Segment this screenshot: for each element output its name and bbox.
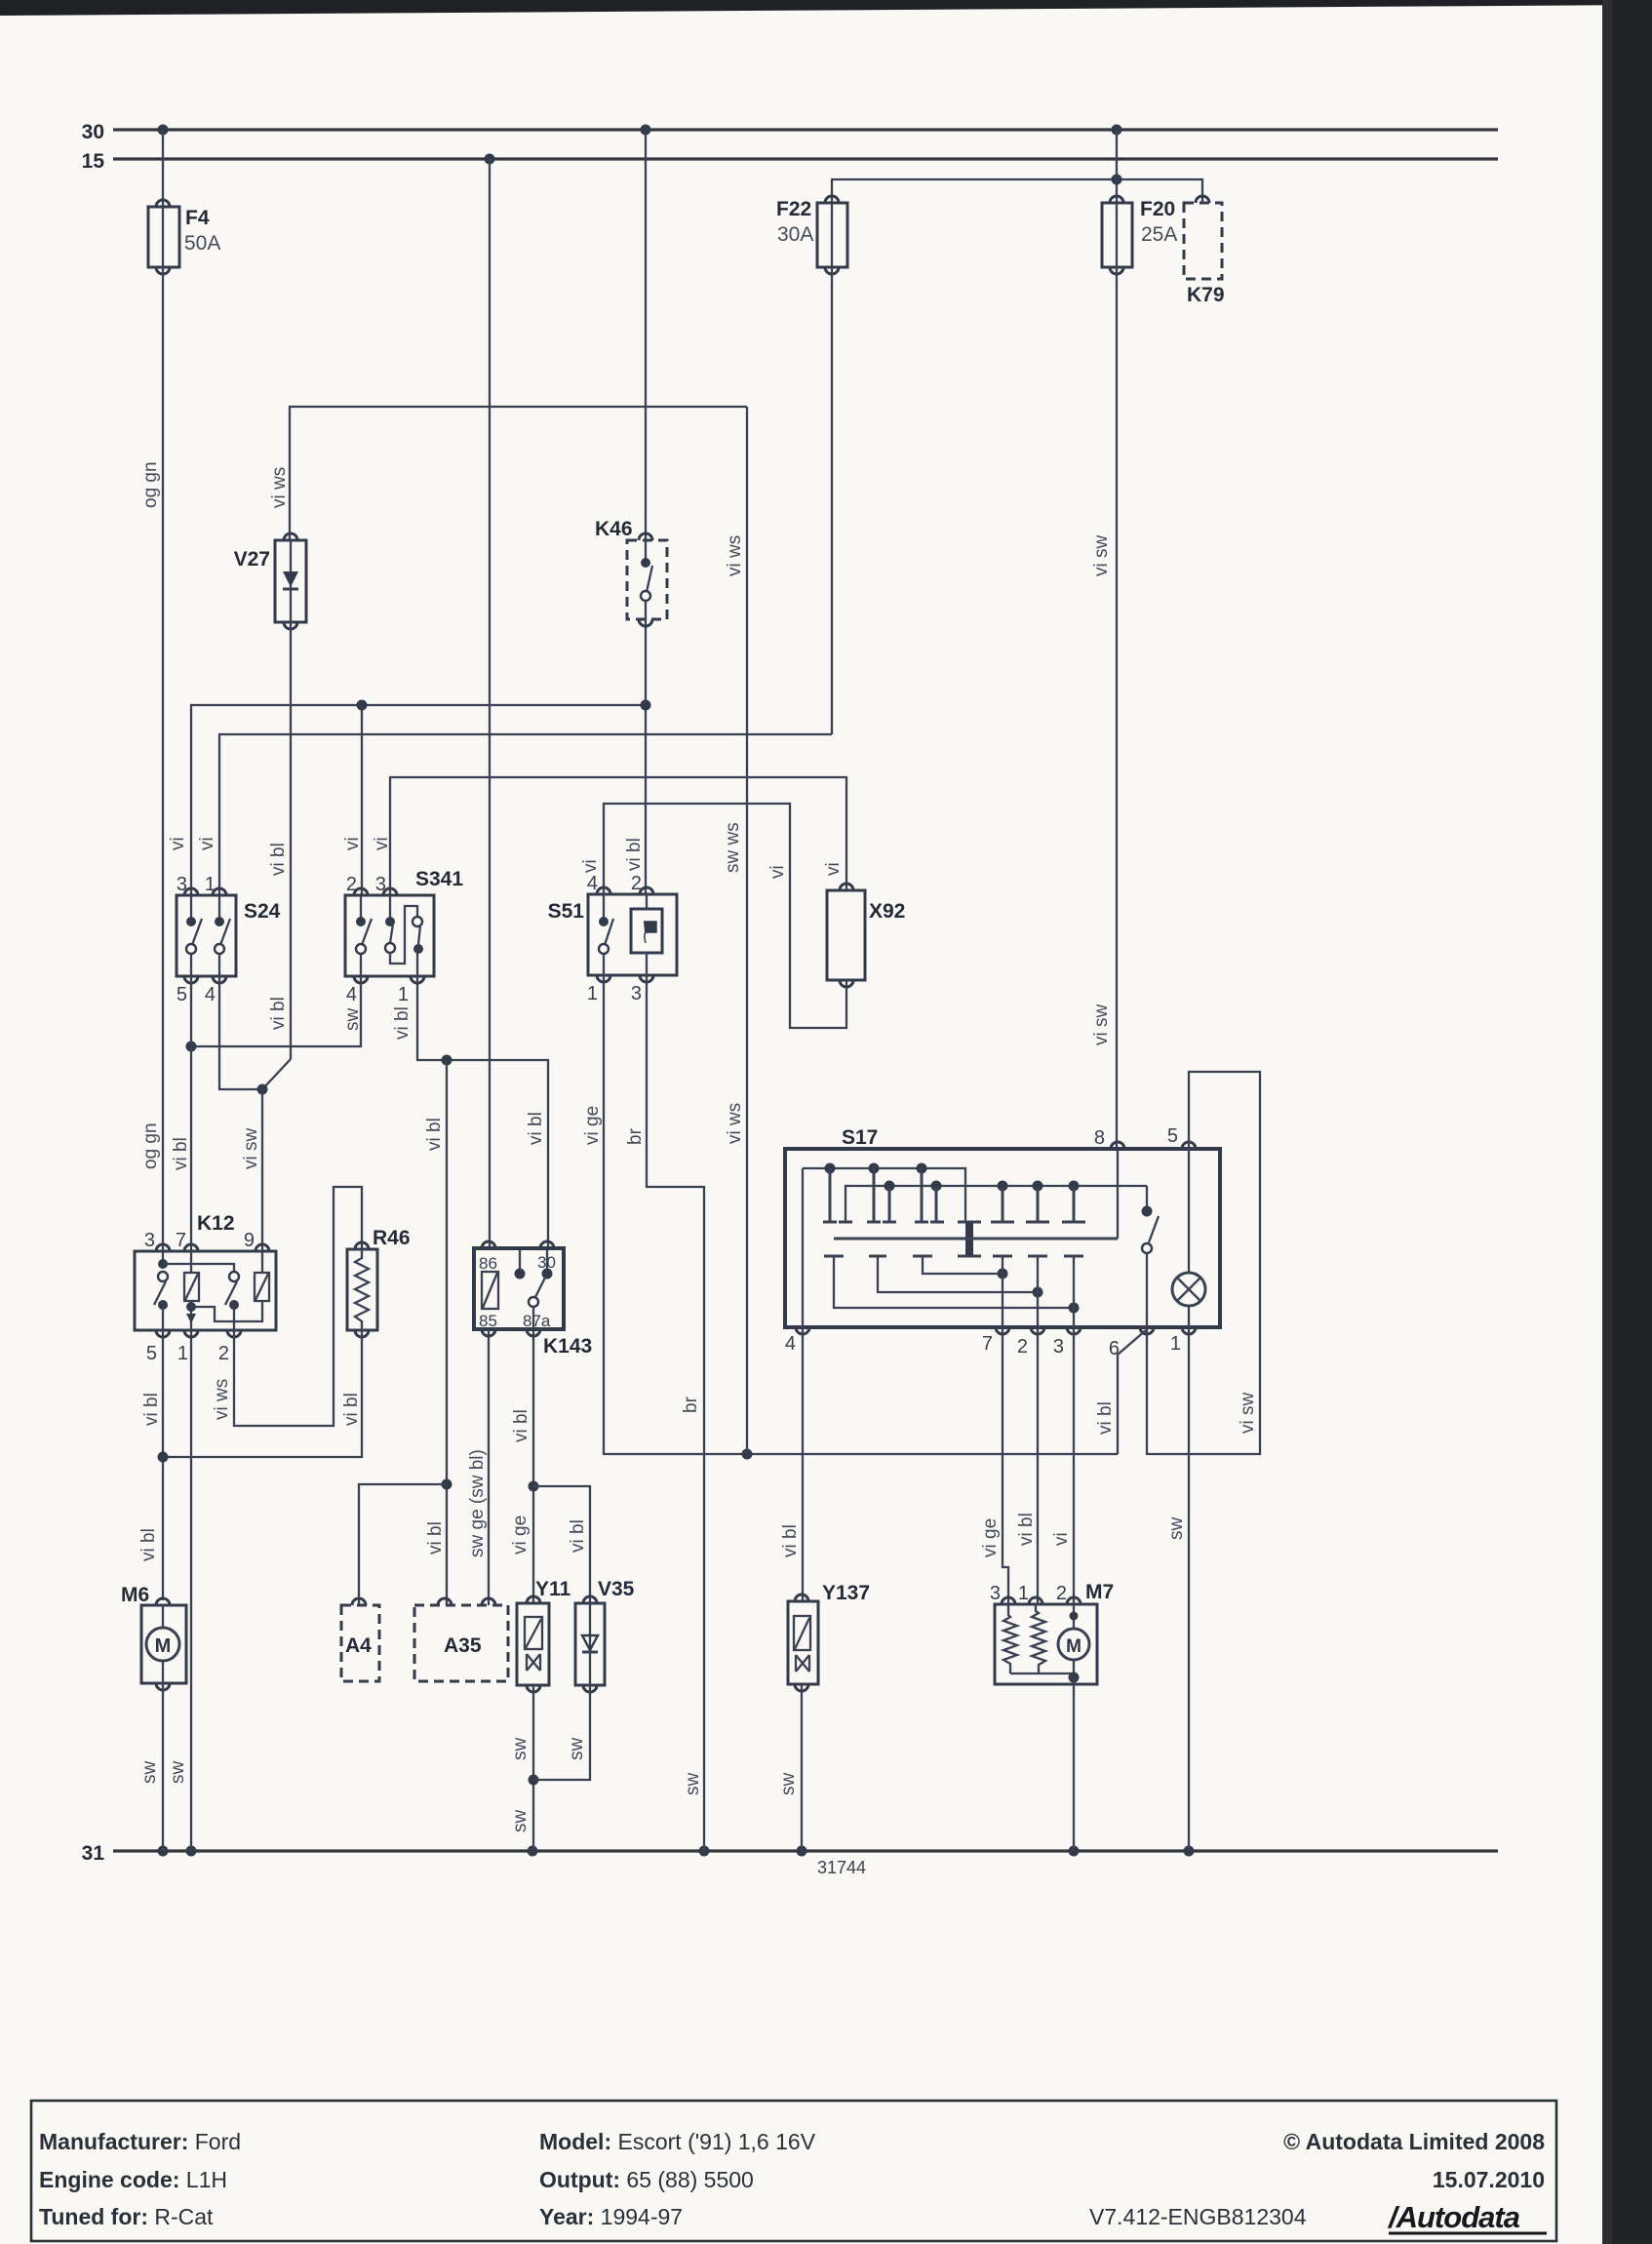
wire vi ge S17 pin7 to M7 pin3 [1003,1327,1008,1604]
svg-text:S24: S24 [244,900,281,923]
bus 15 line [113,157,1498,160]
wire S24 pin5 / S341 pin4 junction [191,976,361,1046]
wire bus30 to F4 [162,130,164,207]
svg-text:3: 3 [990,1583,1001,1604]
wire row y723 to S24 pin 3 [191,705,646,895]
svg-text:vi bl: vi bl [568,1519,588,1553]
S17 internal switch [1142,1186,1160,1327]
node bus 31 / Y137 [797,1846,807,1857]
svg-text:sw: sw [1166,1517,1187,1541]
svg-text:4: 4 [205,984,216,1005]
svg-text:vi bl: vi bl [138,1528,159,1561]
node on bus 15 [485,154,495,165]
S17 rail2 node c [998,1181,1008,1192]
node bus 31 / M6 [158,1846,169,1857]
svg-text:25A: 25A [1141,223,1177,246]
S17 pin8 internal feed [1117,1149,1119,1239]
svg-text:vi sw: vi sw [1091,535,1112,577]
svg-text:3: 3 [1053,1336,1064,1358]
svg-text:vi ge: vi ge [980,1518,1001,1557]
svg-text:3: 3 [144,1230,155,1251]
svg-text:vi: vi [342,837,363,850]
wire sw Y137 to bus 31 [801,1684,803,1851]
wire S51 pin 4 to X92 bottom [604,804,846,1028]
svg-text:vi bl: vi bl [424,1118,445,1151]
info table border [31,2101,1556,2241]
resistor R46 [347,1242,377,1337]
wire vi sw to K12 pin 9 [261,1089,263,1251]
svg-text:sw: sw [168,1761,188,1785]
svg-text:M: M [155,1635,172,1657]
svg-text:50A: 50A [184,232,220,255]
fuse F20 [1102,196,1132,274]
S17 lower link c to pin7 [923,1256,1003,1274]
svg-text:sw ws: sw ws [723,822,743,873]
fuse F22 [817,196,847,274]
svg-text:vi bl: vi bl [624,838,645,871]
svg-text:Engine code: L1H: Engine code: L1H [39,2167,227,2192]
svg-text:9: 9 [244,1230,255,1251]
svg-text:vi bl: vi bl [392,1006,413,1040]
bus 30 line [113,128,1498,131]
svg-text:7: 7 [982,1333,993,1355]
node branch to A35 [442,1055,452,1066]
solenoid valve Y137 [788,1594,818,1691]
wire bus30 down to F22/F20/K79 header [1116,130,1118,203]
svg-text:sw: sw [510,1738,531,1761]
svg-text:M6: M6 [121,1584,149,1606]
svg-text:4: 4 [346,984,357,1005]
S17 rail1 node b [869,1163,880,1174]
svg-text:og gn: og gn [140,461,161,508]
svg-text:87a: 87a [523,1312,551,1330]
svg-text:30: 30 [82,121,104,143]
svg-text:br: br [681,1396,701,1413]
svg-text:30A: 30A [777,223,813,246]
relay K12 [135,1244,276,1337]
wire S17 pin6 diagonal [1118,1330,1146,1454]
S17 pin2 drop [1037,1256,1039,1327]
wire vi bl down to A35 pin left [446,1060,448,1605]
wire F22 down to corner [831,267,833,734]
node A4 junction [442,1479,452,1490]
S17 rail1 node a [825,1163,836,1174]
svg-text:sw: sw [778,1773,799,1796]
svg-text:2: 2 [218,1343,229,1364]
svg-text:X92: X92 [869,900,905,923]
svg-text:vi ge: vi ge [510,1516,531,1555]
S17 pin7 drop [1002,1256,1003,1327]
svg-text:A35: A35 [444,1634,482,1657]
S17 internal riser pin 4 [802,1168,804,1327]
node Y11/V35 junction [529,1481,539,1492]
svg-text:vi sw: vi sw [1091,1004,1112,1046]
svg-text:Tuned for: R-Cat: Tuned for: R-Cat [39,2204,214,2229]
svg-text:F4: F4 [185,207,210,229]
relay K79 (dashed) [1184,196,1222,279]
wire vi ge S51 pin1 long run y1491 [604,975,1118,1454]
svg-text:vi: vi [823,862,844,876]
node bus 31 / Y11 [528,1846,538,1857]
relay contact K46 (dashed) [627,533,667,626]
svg-text:F22: F22 [776,198,811,220]
svg-text:4: 4 [587,873,598,894]
svg-text:1: 1 [1018,1583,1029,1604]
svg-text:3: 3 [375,874,386,895]
S17 rail2 node d [1033,1181,1043,1192]
wire sw S17 pin1 to bus 31 [1188,1327,1190,1851]
svg-text:M7: M7 [1085,1581,1114,1603]
wire vi bl S24 pin5 to K12 pin 7 [190,976,192,1251]
diode V27 [275,533,306,629]
svg-text:vi: vi [767,865,788,879]
relay K143 [474,1241,564,1336]
wire sw ge K143 pin85 to A35 [488,1329,490,1605]
scanner black right edge band [1602,0,1652,2244]
svg-text:© Autodata Limited 2008: © Autodata Limited 2008 [1283,2129,1545,2154]
node bus 31 / M7 [1069,1846,1080,1857]
S17 upper contact shoes [823,1221,1085,1224]
node bus 31 / K12 pin1 [186,1846,197,1857]
wire sw Y11 to bus 31 [532,1685,534,1851]
node S24 pin5 wire [186,1042,197,1052]
svg-text:/Autodata: /Autodata [1387,2200,1520,2234]
node bus 31 / S17 pin1 wire [1184,1846,1195,1857]
svg-text:M: M [1066,1636,1082,1657]
svg-text:vi ws: vi ws [725,1103,745,1144]
svg-text:vi bl: vi bl [1016,1513,1037,1546]
svg-text:vi ge: vi ge [582,1106,603,1145]
connector X92 [827,884,865,987]
node Y11/V35 sw junction [529,1775,539,1786]
svg-text:15: 15 [82,150,105,173]
svg-text:31: 31 [82,1842,105,1865]
svg-text:Year: 1994-97: Year: 1994-97 [539,2204,683,2229]
svg-text:1: 1 [205,874,216,895]
svg-text:vi sw: vi sw [1238,1393,1258,1435]
svg-text:5: 5 [146,1343,157,1364]
svg-text:vi ws: vi ws [725,535,745,576]
wire bus30 down to K46 [645,130,647,540]
node sw ws riser on y1491 [742,1449,753,1460]
wire sw M6 to bus 31 [162,1683,164,1851]
svg-text:5: 5 [1167,1125,1178,1147]
node y723 at K46 wire [641,700,651,711]
svg-text:K79: K79 [1187,284,1225,306]
svg-text:2: 2 [631,873,642,894]
svg-text:vi: vi [1051,1532,1072,1546]
wire S17 pin5 loop to pin6 [1147,1072,1260,1454]
S17 internal rail 2 [846,1186,1147,1222]
svg-text:Output: 65 (88) 5500: Output: 65 (88) 5500 [539,2167,754,2192]
svg-text:2: 2 [346,874,357,895]
Autodata logo [1387,2200,1547,2234]
svg-text:30: 30 [537,1253,556,1272]
S17 node pin7 link [998,1269,1008,1279]
svg-text:V35: V35 [598,1578,635,1600]
svg-text:F20: F20 [1140,198,1175,220]
svg-text:vi: vi [580,859,601,873]
svg-text:Y11: Y11 [535,1578,571,1600]
svg-text:vi bl: vi bl [171,1137,191,1170]
motor M6 [141,1598,186,1690]
svg-text:S341: S341 [415,868,463,890]
wire vi bl K143 pin87a to Y11 [532,1329,534,1603]
svg-text:8: 8 [1094,1127,1105,1149]
svg-text:3: 3 [631,983,642,1004]
scanner black top edge band [0,0,1652,16]
svg-text:vi bl: vi bl [341,1393,362,1426]
svg-text:vi bl: vi bl [425,1521,446,1555]
svg-text:1: 1 [177,1343,188,1364]
S17 pin3 drop [1073,1256,1075,1327]
S17 slider bar [834,1238,1118,1240]
node on bus 30 at F4 [158,125,169,136]
svg-text:Manufacturer: Ford: Manufacturer: Ford [39,2129,241,2154]
svg-text:vi bl: vi bl [526,1112,546,1145]
wire bus15 to K143 pin 86 [489,159,491,1248]
svg-text:K46: K46 [595,518,633,540]
node on bus 30 at F20 [1112,125,1122,136]
heater control switch S17 [785,1142,1220,1334]
svg-text:vi bl: vi bl [1095,1401,1116,1435]
svg-text:7: 7 [176,1230,186,1251]
switch S24 [177,888,236,983]
wire M7 to bus 31 [1073,1679,1075,1851]
node bus 31 / br wire [699,1846,710,1857]
S17 contact stems rail1 [830,1168,922,1222]
svg-text:1: 1 [1170,1333,1181,1355]
wire K46 to S51 pin 2 [645,619,647,894]
svg-text:1: 1 [398,984,409,1005]
wire A4 branch [359,1484,447,1605]
wire br S51 pin3 to bus 31 [647,975,704,1851]
wire V27 diagonal to junction [262,1059,291,1089]
svg-text:V27: V27 [234,548,270,571]
solenoid valve Y11 [517,1596,549,1692]
wire S341 pin1 to K143 pin 30 [417,976,548,1248]
svg-text:vi bl: vi bl [268,843,289,876]
svg-text:vi: vi [372,837,392,850]
svg-text:og gn: og gn [140,1122,161,1169]
S17 lamp [1172,1149,1205,1327]
wire row y797 to S341 pin 3 / X92 [390,777,846,895]
svg-text:86: 86 [479,1254,497,1273]
svg-text:sw: sw [567,1738,587,1761]
svg-text:Model: Escort ('91) 1,6 16V: Model: Escort ('91) 1,6 16V [539,2129,816,2154]
svg-text:A4: A4 [345,1634,372,1657]
svg-text:vi: vi [197,837,217,850]
svg-text:S51: S51 [548,900,585,923]
svg-text:31744: 31744 [817,1858,866,1877]
node y723 at S341 pin2 wire [357,700,368,711]
node M6 feed junction [158,1452,169,1463]
wire vi ws K12 pin2 to R46 top [234,1187,362,1426]
node vi sw junction [257,1084,268,1095]
wire S24 pin4 jog [219,976,262,1089]
wire vi sw F20 down to S17 pin 8 [1116,267,1118,1149]
wire sw K12 pin1 to bus 31 [190,1330,192,1851]
wire branch to V35 [533,1486,590,1603]
svg-text:Y137: Y137 [822,1582,870,1604]
wire sw V35 to junction [533,1685,590,1780]
S17 lower link a to pin3 [834,1256,1074,1308]
svg-text:vi bl: vi bl [511,1409,531,1442]
wire header F22 to K79 [832,179,1202,203]
diode V35 [575,1596,605,1692]
control unit A35 (dashed) [414,1598,508,1681]
svg-text:vi sw: vi sw [241,1128,261,1170]
S17 lower link b to pin2 [878,1256,1038,1292]
svg-text:vi: vi [168,837,188,850]
wire vi ws header above V27 [290,407,747,540]
node on bus 30 at K46 [641,125,651,136]
S17 rail2 node b [931,1181,942,1192]
wire vi bl S17 pin4 to Y137 [802,1327,804,1601]
svg-text:vi bl: vi bl [780,1524,801,1557]
svg-text:vi bl: vi bl [141,1393,162,1426]
svg-text:sw: sw [342,1008,363,1032]
svg-text:15.07.2010: 15.07.2010 [1433,2167,1545,2192]
svg-text:R46: R46 [373,1227,411,1249]
wire vi bl S17 pin2 to M7 pin1 [1037,1327,1039,1604]
switch S341 [345,888,434,983]
svg-text:sw: sw [683,1773,703,1796]
ignition switch S51 [588,887,677,982]
wire row y753 F22 to S24 pin 1 [219,734,832,895]
svg-text:sw ge (sw bl): sw ge (sw bl) [467,1449,488,1557]
svg-text:2: 2 [1017,1336,1028,1358]
node header at F20 [1112,175,1122,185]
svg-text:S17: S17 [842,1126,878,1149]
wire og gn F4 to K12 pin 3 [162,267,164,1251]
svg-text:K143: K143 [543,1335,592,1358]
wire vi bl K12 pin5 to M6 [162,1330,164,1600]
bus 31 line [113,1849,1498,1852]
S17 lower contact shoes [824,1255,1083,1258]
svg-text:1: 1 [587,983,598,1004]
wire vi ws right riser [746,407,748,1454]
svg-text:vi bl: vi bl [268,997,289,1030]
svg-text:sw: sw [139,1761,160,1785]
wire vi bl V27 down [290,622,292,1059]
svg-text:5: 5 [177,984,187,1005]
wire vi bl R46 bottom to M6 junction [163,1330,362,1457]
svg-text:3: 3 [177,874,187,895]
S17 rail2 node e [1069,1181,1080,1192]
svg-text:4: 4 [785,1333,796,1355]
svg-text:85: 85 [479,1312,497,1330]
svg-text:K12: K12 [197,1212,235,1235]
svg-text:br: br [625,1127,646,1145]
fuse F4 [148,200,179,274]
S17 commutator I-bar [958,1222,981,1256]
S17 node pin3 link [1069,1303,1080,1314]
S17 rail2 node a [885,1181,895,1192]
S17 contact stems rail2 [889,1186,1074,1222]
svg-text:vi ws: vi ws [269,467,290,508]
blower motor M7 [995,1597,1097,1684]
S17 node pin2 link [1033,1287,1043,1298]
control unit A4 (dashed) [341,1598,379,1681]
wire vi S17 pin3 to M7 pin2 [1073,1327,1075,1604]
svg-text:sw: sw [510,1810,531,1833]
svg-text:V7.412-ENGB812304: V7.412-ENGB812304 [1089,2204,1307,2229]
S17 internal rail 1 [803,1168,965,1222]
svg-text:2: 2 [1056,1583,1067,1604]
S17 rail1 node c [917,1163,927,1174]
wire S341 pin 2 drop [361,705,363,895]
svg-text:vi ws: vi ws [212,1379,232,1420]
